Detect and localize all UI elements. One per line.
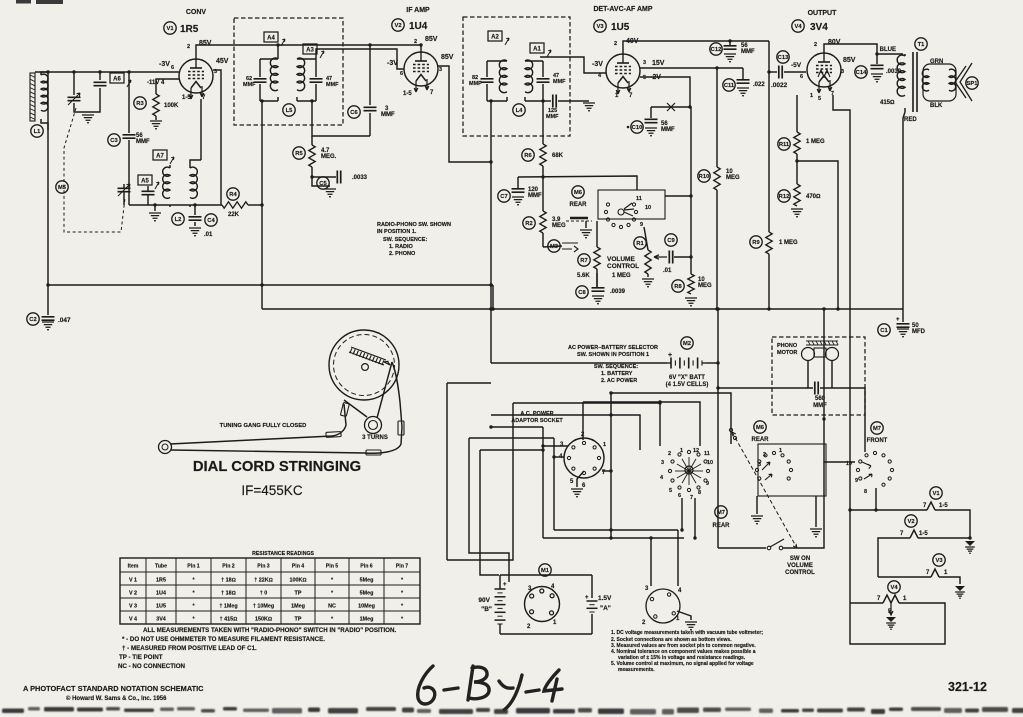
R11 label [778,138,790,150]
svg-text:10: 10 [645,205,651,211]
rotary switch M7 rear [687,450,690,453]
IF transformer 1 dashed box [234,18,343,125]
svg-text:† - MEASURED FROM POSITIVE LE: † - MEASURED FROM POSITIVE LEAD OF C1. [122,645,257,652]
svg-text:M7: M7 [873,426,881,432]
svg-text:85V: 85V [441,54,454,61]
svg-text:3 TURNS: 3 TURNS [362,435,388,441]
svg-text:V2: V2 [394,23,401,29]
svg-text:1: 1 [603,442,606,448]
svg-text:A5: A5 [141,179,149,185]
svg-text:R4: R4 [229,192,237,198]
svg-text:T1: T1 [918,42,926,48]
phono jack M3 [548,240,560,252]
svg-text:FRONT: FRONT [867,438,888,444]
svg-text:.0022: .0022 [771,82,788,89]
M5 label [56,181,68,193]
vertical rail x262 [261,101,263,309]
wire nest v1b [447,403,513,560]
svg-text:2. PHONO: 2. PHONO [389,251,416,257]
trimmer box A4 [264,32,278,42]
IF1 secondary bottom drop [312,101,370,136]
V3 fil labels [933,554,945,566]
svg-text:V1: V1 [932,491,940,497]
T1 bottom lead to bus [903,112,905,309]
feedback wire to V1 filament [200,99,202,160]
svg-text:MMF: MMF [528,193,542,199]
switch X mark [651,106,690,108]
svg-text:MEG: MEG [552,223,566,229]
svg-text:470Ω: 470Ω [806,194,821,200]
svg-text:1U5: 1U5 [611,22,630,33]
capacitor C6 3MMF [369,113,371,136]
svg-text:1: 1 [810,93,813,99]
R1 labels [634,237,646,249]
svg-text:Pin 7: Pin 7 [396,564,409,570]
capacitor C8 .0039 [596,273,598,287]
svg-text:.047: .047 [58,317,71,324]
svg-text:Pin 5: Pin 5 [326,564,339,570]
svg-text:"A": "A" [600,605,611,612]
variable tuning capacitor [68,70,89,112]
L1 label [31,125,43,137]
svg-text:AC POWER–BATTERY SELECTOR: AC POWER–BATTERY SELECTOR [568,345,658,351]
svg-text:5Meg: 5Meg [360,578,374,584]
capacitor C7 120MMF [517,177,519,188]
svg-text:90V: 90V [478,597,490,604]
svg-text:R12: R12 [779,194,790,200]
svg-text:MEG: MEG [698,283,712,289]
dial cord lower [171,427,402,453]
svg-text:1Meg: 1Meg [291,604,305,610]
V2 fil labels [905,515,917,527]
svg-text:M1: M1 [541,568,550,574]
M7 front label [871,422,883,434]
phono dashed input [566,220,592,222]
trimmer box A2 [488,31,502,41]
wire R11-R12 to bus [797,161,838,309]
svg-text:1R5: 1R5 [156,578,166,584]
svg-text:† 22KΩ: † 22KΩ [254,578,273,584]
L5 label [283,104,295,116]
svg-text:3: 3 [643,60,646,66]
V3 filament resistor [878,576,931,578]
svg-text:ALL MEASUREMENTS TAKEN WITH "R: ALL MEASUREMENTS TAKEN WITH "RADIO-PHONO… [143,627,396,634]
svg-text:V 4: V 4 [129,617,137,623]
svg-text:V2: V2 [907,519,914,525]
capacitor 47MMF [297,59,316,77]
svg-text:SW. SHOWN IN POSITION 1: SW. SHOWN IN POSITION 1 [577,352,649,358]
wire v611 [610,393,612,538]
AC socket ground [577,471,584,487]
svg-text:M5: M5 [58,185,67,191]
svg-text:REAR: REAR [712,523,730,529]
svg-text:V 2: V 2 [129,591,137,597]
svg-text:VOLUME: VOLUME [607,256,635,263]
svg-text:TP: TP [295,591,302,597]
svg-text:Pin 3: Pin 3 [257,564,270,570]
IF1 secondary top lead [316,49,319,59]
svg-text:MMF: MMF [136,139,150,145]
capacitor C3 56MMF [123,135,136,138]
svg-text:measurements.: measurements. [618,667,655,673]
svg-text:415Ω: 415Ω [880,100,895,106]
svg-text:NC: NC [328,604,336,610]
svg-text:1: 1 [779,448,782,454]
capacitor C4 .01 [194,205,196,215]
resistor R9 1MEG [766,232,772,254]
svg-text:.022: .022 [753,82,765,88]
svg-text:2: 2 [614,41,617,47]
svg-text:OUTPUT: OUTPUT [808,10,838,17]
svg-text:2: 2 [763,452,766,458]
capacitor C9 .01 [669,251,672,264]
svg-text:1-5: 1-5 [182,95,191,101]
socket M? 4pin [646,589,680,623]
svg-text:A7: A7 [156,154,164,160]
svg-text:Item: Item [128,564,139,570]
V1 plate wire [196,45,421,59]
svg-text:8: 8 [698,490,701,496]
svg-text:22K: 22K [228,212,240,218]
svg-text:RADIO-PHONO SW. SHOWN: RADIO-PHONO SW. SHOWN [377,222,451,228]
ground V2 row [965,541,975,546]
C4 labels [205,214,217,226]
svg-text:R11: R11 [779,142,790,148]
svg-text:BLK: BLK [930,103,943,109]
svg-text:11: 11 [636,196,642,202]
ground V3 row [955,586,965,591]
V3 grid wire [540,57,606,73]
svg-text:R9: R9 [752,240,760,246]
svg-text:A1: A1 [533,47,541,53]
capacitor C10 56MMF [650,107,652,118]
svg-text:R1: R1 [636,241,644,247]
V1 filament resistor [850,509,927,511]
svg-text:† 10Meg: † 10Meg [253,604,274,610]
svg-text:1. DC voltage measurements ta: 1. DC voltage measurements taken with va… [611,630,763,636]
wire nest v554 [553,438,555,530]
IF2 primary coil [499,60,507,93]
svg-text:6: 6 [171,65,174,71]
svg-text:V 3: V 3 [129,604,137,610]
trimmer box A1 [530,43,544,53]
svg-text:.0033: .0033 [352,175,368,181]
M1 label [539,564,551,576]
svg-text:BLUE: BLUE [880,47,896,53]
svg-text:TP: TP [295,617,302,623]
svg-text:A4: A4 [267,36,275,42]
speaker SP1 [955,63,972,101]
capacitor 82MMF [487,61,507,77]
osc section A7 box [153,150,167,160]
tube V2 1U4 IF amp [404,52,438,86]
filament rail x850 [833,95,850,603]
svg-text:C4: C4 [207,218,215,224]
osc coil L2 [163,167,170,198]
V3 pin5 wire [640,77,690,107]
svg-text:3: 3 [661,460,664,466]
bus A horizontal [48,284,493,286]
svg-text:+: + [896,317,900,323]
capacitor C13 .0022 [769,71,777,73]
capacitor C2 .047 [47,285,49,315]
V3 plate wire top [623,41,769,54]
volume control R1 1MEG [644,227,648,250]
svg-text:PHONO: PHONO [777,343,798,349]
svg-text:SW. SEQUENCE:: SW. SEQUENCE: [383,237,427,243]
svg-text:C8: C8 [578,290,586,296]
resistor R4 22K [195,204,222,206]
svg-text:L2: L2 [175,217,182,223]
svg-text:10: 10 [846,461,852,467]
wire left rail [47,72,49,285]
resistor R6 68K [542,101,544,144]
svg-text:L1: L1 [34,129,42,135]
svg-text:M6: M6 [756,425,765,431]
svg-text:10Meg: 10Meg [358,604,375,610]
svg-text:"B": "B" [481,606,492,613]
dial spring [349,347,386,365]
wire riser sock2 a [650,538,652,586]
IF transformer 2 dashed box [463,17,570,136]
switch rect box [758,444,826,496]
svg-text:A6: A6 [113,77,121,83]
socket2 ground [677,611,691,620]
svg-text:2: 2 [668,451,671,457]
svg-text:6: 6 [400,71,403,77]
vertical from pin5 down [690,107,692,257]
ground osc [154,205,156,211]
svg-text:R7: R7 [580,258,587,264]
svg-text:11: 11 [704,451,710,457]
svg-text:V4: V4 [890,585,898,591]
wire socket pin7 [602,470,611,472]
svg-text:85V: 85V [425,36,438,43]
M6 rear labels [572,186,584,198]
avc bus wire [518,176,637,190]
svg-text:Pin 4: Pin 4 [292,564,305,570]
vertical rail x491 [490,101,492,363]
svg-text:3V4: 3V4 [156,617,166,623]
svg-text:DIAL CORD STRINGING: DIAL CORD STRINGING [193,459,361,475]
trimmer box A6 [110,73,124,83]
R7 label [578,254,590,266]
svg-text:+: + [585,595,589,601]
IF2 bottom joints [487,97,543,101]
switch box [598,190,665,219]
C6 tap [369,45,371,105]
ground antenna [82,115,94,123]
svg-text:© Howard W. Sams & Co., Inc. 1: © Howard W. Sams & Co., Inc. 1956 [66,695,167,702]
svg-text:150KΩ: 150KΩ [255,617,272,623]
battery A 1.5V [587,600,598,602]
svg-text:TUNING GANG FULLY CLOSED: TUNING GANG FULLY CLOSED [220,423,307,429]
M1 battery box [500,574,592,576]
IF1 bottom joints [260,97,316,101]
svg-text:MEG.: MEG. [321,154,337,160]
svg-text:V3: V3 [935,558,943,564]
svg-text:-5V: -5V [791,62,802,69]
wire nest h2 [491,415,640,450]
capacitor C1 50MFD [902,309,904,322]
IF1 primary coil [270,58,278,91]
svg-text:321-12: 321-12 [948,680,987,694]
wire nest v543 [542,427,544,538]
coupling rail x769 [768,41,770,232]
svg-text:C3: C3 [110,138,118,144]
svg-text:-3V: -3V [159,61,170,68]
svg-text:85V: 85V [843,57,856,64]
resistor R2 3.9MEG [542,177,544,211]
wire grid bus top [35,71,179,73]
svg-text:C13: C13 [778,55,789,61]
capacitor C14 .0039 [876,54,878,64]
svg-text:Pin 2: Pin 2 [222,564,235,570]
ground C5 [324,189,336,197]
phono motor wires [718,387,808,389]
capacitor 62MMF [260,59,278,77]
IF2 secondary coil [525,60,533,93]
svg-text:V1: V1 [166,26,174,32]
V1 pin4 grid2 wire [156,79,179,94]
phono motor symbol [806,341,838,345]
svg-text:RED: RED [904,117,917,123]
top corner marks [16,0,31,4]
V2 pin3 wire [438,66,491,162]
svg-text:M6: M6 [574,190,583,196]
svg-text:6V "X" BATT: 6V "X" BATT [669,375,705,381]
wire nest v2 [469,438,509,582]
junction plate-L3 [277,45,279,59]
svg-text:1. RADIO: 1. RADIO [389,244,414,250]
dial cord left ring [159,441,172,454]
osc grid rail [128,72,130,205]
capacitor C11 .022 [742,68,744,79]
svg-text:VOLUME: VOLUME [787,563,813,569]
osc bottom rail [129,204,195,206]
tube V4 3V4 [807,53,841,87]
svg-text:.0039: .0039 [610,289,626,295]
svg-text:L4: L4 [516,108,524,114]
svg-text:MMF: MMF [661,127,675,133]
svg-text:1: 1 [680,448,683,454]
M6 rear lower label [754,421,766,433]
R2 label [523,217,535,229]
svg-text:12: 12 [693,448,699,454]
svg-text:1 MEG: 1 MEG [612,273,631,279]
dial cord crimp1 [326,432,341,438]
svg-text:C7: C7 [500,194,507,200]
ground sw1 [756,496,758,514]
svg-text:A.C. POWER: A.C. POWER [520,411,553,417]
svg-text:1U5: 1U5 [156,604,166,610]
svg-text:C12: C12 [711,47,722,53]
tube V3 1U5 [606,54,640,88]
wire nest v4 [447,382,491,384]
R10 label [698,170,710,182]
switch M6 rear rotary [632,203,635,206]
L2 label [172,213,184,225]
svg-text:1U4: 1U4 [409,21,428,32]
svg-text:5: 5 [818,96,821,102]
rotary switch M6 rear lower [772,451,775,454]
resistor R11 1MEG [796,95,798,132]
svg-text:8: 8 [864,489,867,495]
capacitor C5 .0033 [310,175,313,178]
svg-text:5: 5 [669,488,672,494]
R12 label [778,190,790,202]
svg-text:V 1: V 1 [129,578,137,584]
svg-text:.01: .01 [663,268,672,274]
wire pin2 riser [582,402,584,440]
svg-text:-3V: -3V [387,60,398,67]
svg-text:85V: 85V [199,40,212,47]
svg-text:7: 7 [690,495,693,501]
svg-text:Tube: Tube [155,564,167,570]
AC socket [564,438,604,478]
svg-text:MMF: MMF [381,112,395,118]
svg-text:V3: V3 [596,24,604,30]
svg-text:† 1Meg: † 1Meg [219,604,237,610]
on-off switch [718,547,766,549]
svg-text:SP1: SP1 [967,81,979,87]
L4 label [513,104,525,116]
V1 pin3 wire [213,70,221,205]
R5 label [293,147,305,159]
svg-text:1-5: 1-5 [919,531,928,537]
svg-text:5Meg: 5Meg [360,591,374,597]
svg-text:-3V: -3V [592,61,603,68]
V2 grid wire [319,49,404,69]
svg-text:1R5: 1R5 [180,24,199,35]
bus B horizontal [262,308,903,310]
svg-text:68K: 68K [552,153,564,159]
svg-text:L5: L5 [286,108,294,114]
svg-text:R8: R8 [674,284,682,290]
capacitor 47MMF IF2 [525,61,543,77]
svg-text:C11: C11 [724,83,735,89]
resistor R12 470 [794,184,800,206]
svg-text:C1: C1 [880,328,888,334]
wire h393 [611,393,731,444]
R8 label [672,280,684,292]
trimmer box A3 [303,44,317,54]
svg-text:REAR: REAR [569,202,587,208]
wire nest v3 [480,450,499,575]
handwritten 6-BY-4 [418,666,562,710]
T1 secondary and voice coil [923,64,956,101]
V2 filament resistor [918,537,970,539]
svg-text:MMF: MMF [741,49,755,55]
wire socket pin3 [543,445,568,447]
svg-text:CONTROL: CONTROL [607,263,639,270]
dashed link arrow [732,432,797,548]
resistor R10 10MEG [716,68,718,167]
svg-text:3: 3 [439,67,442,73]
svg-text:MOTOR: MOTOR [777,350,797,356]
ground sw2 [815,496,817,527]
wire socket pin4 [554,456,564,458]
dial cord crimp3 [366,450,381,455]
M7 rear label [715,506,727,518]
svg-text:SW ON: SW ON [790,556,810,562]
R3 label [134,97,146,109]
svg-text:1 MEG: 1 MEG [806,139,825,145]
svg-text:A PHOTOFACT STANDARD NOTATI: A PHOTOFACT STANDARD NOTATION SCHEMATIC [23,684,204,693]
svg-text:(4 1.5V CELLS): (4 1.5V CELLS) [666,382,709,388]
osc variable cap [118,188,131,191]
resistor R8 10MEG [690,257,692,274]
